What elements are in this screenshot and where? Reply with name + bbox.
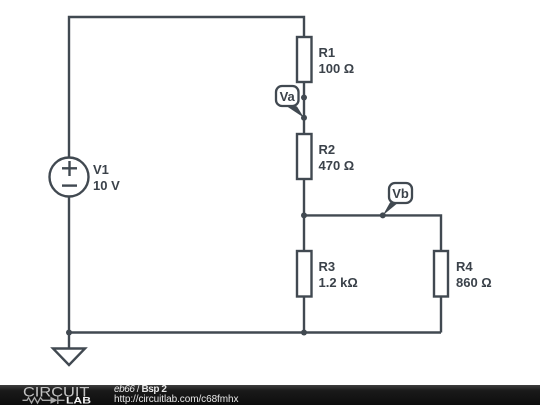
svg-text:LAB: LAB bbox=[66, 396, 91, 405]
